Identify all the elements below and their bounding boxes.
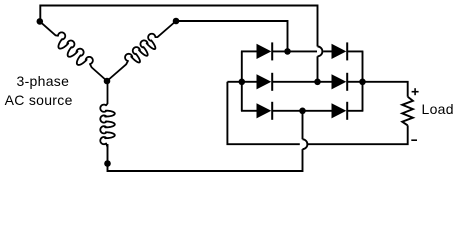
node row 3 / phase 3 junction xyxy=(299,108,306,115)
resistor Load xyxy=(402,97,413,126)
node phase-3 terminal xyxy=(104,160,111,167)
node row 1 / phase 2 junction xyxy=(284,48,291,55)
node phase-1 terminal xyxy=(37,18,44,25)
svg-text:AC source: AC source xyxy=(5,92,73,108)
diode D6 (row 2 right) xyxy=(332,74,347,89)
inductor winding C (3-phase source, bottom) xyxy=(100,83,115,147)
inductor winding A (3-phase source, upper-left) xyxy=(40,21,107,81)
node row 2 / phase 1 junction xyxy=(314,79,321,86)
wire row 2 left extension xyxy=(227,81,241,83)
diode D2 (row 3 right) xyxy=(332,103,347,118)
diode D3 (row 2 left) xyxy=(257,74,272,89)
wire row 1 to right bus xyxy=(347,50,363,52)
wire row 3 middle xyxy=(272,110,331,112)
wire load bottom xyxy=(307,125,408,144)
wire right bus (cathodes) xyxy=(362,51,364,110)
wire row 2 left xyxy=(242,81,257,83)
wire row 1 left xyxy=(241,50,257,52)
wire row 1 right of hop xyxy=(323,50,331,52)
wire left bus (anodes) xyxy=(241,51,243,110)
diode D1 (row 1 left) xyxy=(257,44,272,59)
inductor winding B (3-phase source, upper-right) xyxy=(107,21,176,81)
node phase-2 terminal xyxy=(173,18,180,25)
svg-text:3-phase: 3-phase xyxy=(17,73,70,89)
wire hop phase-3 over negative rail xyxy=(303,139,308,149)
label + polarity xyxy=(412,91,419,93)
wire row 2 to right bus xyxy=(347,81,362,83)
wire phase-1 top xyxy=(40,6,317,47)
label - polarity xyxy=(411,139,417,141)
wire positive rail to load xyxy=(363,82,408,97)
wire hop phase-1 over row 1 xyxy=(318,47,323,57)
wire phase-1 to row 2 node xyxy=(317,56,319,82)
wire phase-2 xyxy=(176,21,288,51)
diode D5 (row 3 left) xyxy=(257,103,272,118)
wire phase-3 bottom xyxy=(108,144,303,171)
wire negative rail xyxy=(227,82,299,144)
node right bus row 2 junction xyxy=(359,79,366,86)
wire row 3 left xyxy=(241,110,257,112)
wire row 1 middle xyxy=(272,50,317,52)
wire row 3 to right bus xyxy=(347,110,363,112)
wire row 2 middle xyxy=(272,81,331,83)
svg-text:Load: Load xyxy=(422,101,454,117)
wire phase-3 to row 3 node xyxy=(302,111,304,140)
node wye center xyxy=(104,78,111,85)
node left bus row 2 junction xyxy=(239,79,246,86)
diode D4 (row 1 right) xyxy=(332,44,347,59)
